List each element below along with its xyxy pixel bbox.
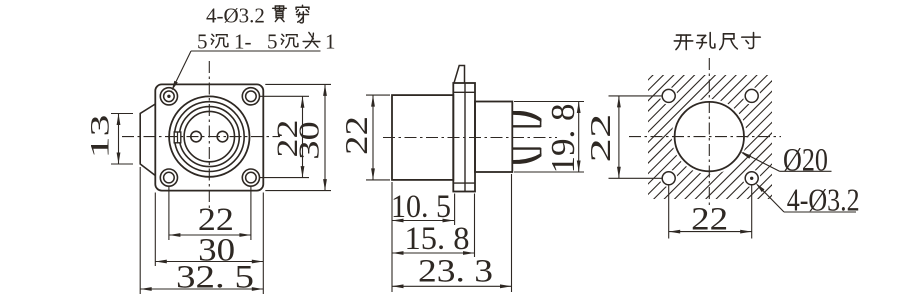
panel hole top-right	[743, 87, 761, 105]
side protrusion (left lug)	[140, 104, 155, 176]
svg-text:1: 1	[325, 30, 336, 54]
svg-text:5: 5	[267, 30, 278, 54]
flange square outline	[155, 84, 263, 190]
dimension 22 vertical (hole spacing)	[260, 96, 310, 177]
panel cutout circle D20	[672, 99, 747, 174]
keyway slot	[174, 132, 181, 143]
dimension 22 horizontal (panel holes)	[669, 185, 752, 238]
panel hole bottom-left	[660, 170, 678, 188]
dimension 30 vertical (flange height)	[265, 84, 331, 190]
dimension 19.8 (front height)	[514, 102, 584, 174]
svg-text:4-Ø3.2: 4-Ø3.2	[787, 182, 860, 218]
body rectangle (rear shell)	[392, 95, 453, 180]
flange plate side view	[453, 83, 475, 192]
thread circle	[174, 102, 244, 172]
svg-text:4-Ø3.2: 4-Ø3.2	[206, 4, 265, 28]
socket wall circle	[179, 107, 239, 167]
svg-text:Ø20: Ø20	[783, 143, 828, 179]
pin socket right	[217, 131, 228, 142]
vertical centerline right view	[708, 58, 710, 205]
panel hole top-left	[660, 87, 678, 105]
svg-text:22: 22	[338, 116, 374, 155]
note text line 1: 4-D3.2 through	[206, 4, 309, 28]
dimension 10.5	[391, 182, 455, 292]
title: cutout dimensions	[674, 33, 760, 50]
solder terminal bottom	[512, 148, 541, 164]
horizontal centerline right view	[629, 136, 781, 138]
svg-text:23. 3: 23. 3	[418, 254, 493, 290]
horizontal centerline left view	[122, 136, 280, 138]
svg-text:19. 8: 19. 8	[545, 104, 582, 174]
svg-text:30: 30	[295, 121, 326, 160]
leader line from note to top-left mounting hole	[167, 51, 320, 98]
center mark dot in referenced panel hole	[750, 177, 753, 180]
svg-text:5: 5	[197, 30, 208, 54]
dimension 22 vertical (panel holes)	[585, 96, 662, 178]
vertical centerline left view	[208, 61, 210, 208]
solder terminal top	[512, 111, 541, 127]
dimension 22 (body height)	[338, 95, 390, 180]
key tab on flange top	[454, 66, 465, 84]
horizontal centerline middle view	[383, 137, 557, 139]
svg-text:13: 13	[86, 115, 115, 159]
mounting hole top-right	[242, 88, 259, 105]
front step (socket tube)	[475, 102, 512, 173]
svg-text:22: 22	[691, 202, 728, 238]
mounting hole bottom-left	[160, 169, 177, 186]
pin socket left	[191, 131, 202, 142]
socket bore circle	[184, 111, 234, 161]
dimension 15.8	[392, 194, 475, 258]
note text line 2: counterbore spec	[197, 30, 336, 54]
leader and label 4-D3.2	[756, 182, 860, 218]
svg-text:10. 5: 10. 5	[391, 189, 451, 225]
dimension 13 (lug height)	[86, 114, 134, 165]
dimension 32.5 horizontal (overall width)	[140, 167, 263, 296]
panel hole bottom-right	[743, 170, 761, 188]
dimension 30 horizontal (flange width)	[155, 193, 263, 269]
connector shell circle (outer)	[169, 96, 249, 176]
svg-text:1-: 1-	[234, 30, 252, 54]
svg-text:32. 5: 32. 5	[176, 260, 254, 296]
mounting hole bottom-right	[242, 169, 259, 186]
dimension 23.3	[392, 174, 512, 292]
svg-text:22: 22	[585, 114, 617, 163]
dimension 22 horizontal (hole spacing)	[169, 187, 251, 240]
mounting hole top-left	[160, 88, 177, 105]
leader and label D20	[740, 143, 831, 179]
svg-text:15. 8: 15. 8	[405, 221, 470, 257]
